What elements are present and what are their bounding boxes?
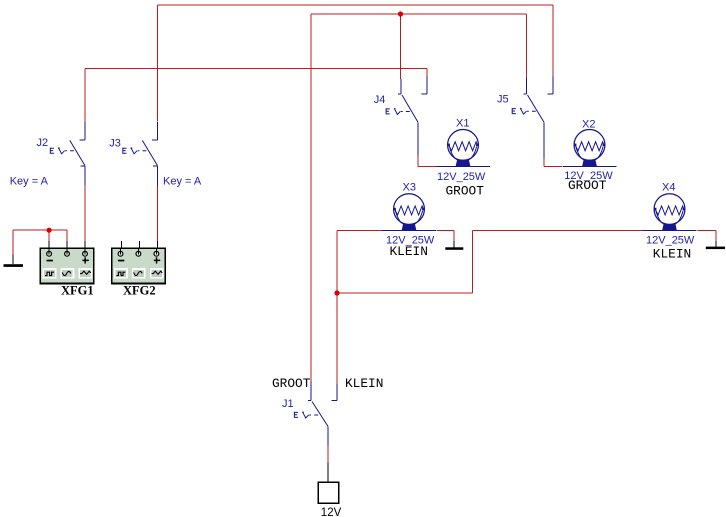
svg-text:X1: X1 [456, 118, 469, 130]
svg-text:12V_25W: 12V_25W [646, 234, 695, 246]
svg-text:KLEIN: KLEIN [653, 246, 691, 261]
svg-text:J5: J5 [497, 93, 509, 105]
svg-text:12V_25W: 12V_25W [437, 171, 486, 183]
svg-text:Key = A: Key = A [10, 176, 49, 188]
svg-text:XFG1: XFG1 [61, 283, 94, 297]
svg-text:X2: X2 [582, 119, 595, 131]
svg-text:GROOT: GROOT [568, 178, 607, 193]
svg-text:Key = A: Key = A [163, 176, 202, 188]
svg-text:12V: 12V [321, 507, 342, 517]
svg-text:KLEIN: KLEIN [390, 244, 428, 259]
svg-text:J3: J3 [109, 137, 121, 149]
svg-text:J2: J2 [37, 137, 49, 149]
svg-text:X3: X3 [403, 182, 416, 194]
svg-text:J4: J4 [374, 94, 386, 106]
svg-text:KLEIN: KLEIN [345, 376, 383, 391]
svg-text:GROOT: GROOT [446, 183, 485, 198]
svg-text:XFG2: XFG2 [123, 283, 156, 297]
svg-text:X4: X4 [662, 181, 675, 193]
svg-text:J1: J1 [282, 398, 294, 410]
svg-text:GROOT: GROOT [272, 376, 311, 391]
